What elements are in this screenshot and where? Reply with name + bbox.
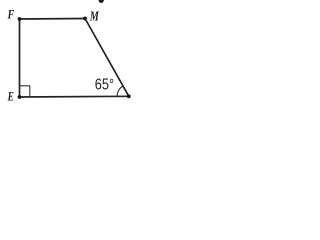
svg-text:F: F — [7, 9, 15, 22]
wire: slanted edge M-D — [85, 19, 129, 97]
svg-text:M: M — [89, 8, 99, 24]
stray cropped ink blob at top — [99, 0, 104, 3]
wire: bottom edge E-D — [20, 95, 129, 98]
node F dot — [18, 17, 22, 21]
svg-text:E: E — [7, 90, 14, 104]
node E dot — [18, 95, 22, 99]
node D dot (unlabeled vertex) — [127, 94, 131, 98]
right-angle mark at E — [20, 86, 30, 97]
background — [0, 0, 136, 120]
node M dot — [83, 17, 87, 21]
angle arc 65 deg at D — [117, 86, 123, 96]
wire: left edge F-E — [19, 19, 21, 97]
wire: top edge F-M — [20, 18, 86, 21]
svg-text:65°: 65° — [95, 76, 114, 94]
